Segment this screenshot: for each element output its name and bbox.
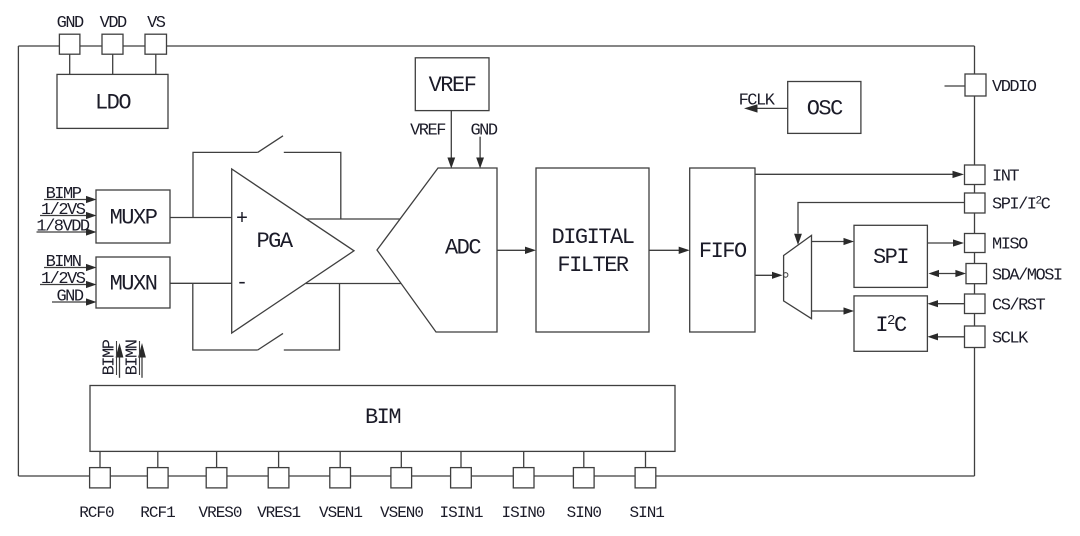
wire BIM stub SIN1: [645, 451, 647, 467]
wire BIM stub ISIN1: [460, 451, 462, 467]
block MUXP: [96, 190, 170, 243]
wire BIM stub SIN0: [583, 451, 585, 467]
pin VRES1: [268, 468, 289, 488]
arrowhead 1/8VDD into MUXP: [86, 228, 97, 235]
svg-text:+: +: [236, 208, 248, 231]
svg-text:GND: GND: [57, 14, 84, 33]
svg-text:VSEN0: VSEN0: [380, 504, 423, 522]
svg-text:VREF: VREF: [410, 122, 445, 141]
svg-text:1/2VS: 1/2VS: [41, 270, 86, 289]
node mux input bubble: [783, 273, 788, 278]
arrowhead select into mux: [794, 234, 802, 245]
pin VRES0: [206, 468, 227, 488]
svg-text:VDDIO: VDDIO: [992, 78, 1037, 97]
wire VDD stub: [112, 54, 114, 74]
wire FIFO to mux: [755, 274, 773, 276]
wire VREF to ADC: [450, 111, 452, 159]
arrowhead 1/2VS into MUXP: [86, 212, 97, 219]
pin VSEN1: [330, 468, 351, 488]
switch blade top: [258, 136, 283, 153]
mux selector: [784, 235, 812, 318]
arrowhead SDA/MOSI left: [928, 270, 939, 277]
svg-text:VREF: VREF: [429, 73, 476, 98]
wire PGA out top: [307, 218, 401, 220]
pin VS top: [145, 34, 167, 54]
arrowhead VREF into ADC: [447, 158, 455, 169]
arrowhead mux to I2C: [844, 307, 855, 314]
wire MUXP to PGA: [170, 217, 232, 219]
pin RCF0: [90, 468, 111, 488]
arrowhead SDA/MOSI right: [955, 270, 966, 277]
arrowhead FIFO to INT: [953, 171, 965, 178]
svg-text:VDD: VDD: [100, 14, 127, 33]
wire VDDIO stub: [945, 85, 966, 87]
svg-text:ISIN1: ISIN1: [439, 504, 482, 522]
svg-text:-: -: [236, 272, 248, 295]
arrowhead BIMP up: [116, 343, 124, 358]
svg-text:SPI/I2C: SPI/I2C: [992, 196, 1051, 215]
wire PGA top feedback right: [284, 152, 341, 219]
block MUXN: [96, 257, 170, 308]
svg-text:GND: GND: [56, 288, 83, 307]
wire BIM stub ISIN0: [523, 451, 525, 467]
arrowhead FCLK: [744, 104, 758, 112]
svg-text:SDA/MOSI: SDA/MOSI: [992, 267, 1062, 286]
svg-text:CS/RST: CS/RST: [992, 297, 1046, 316]
svg-text:SIN1: SIN1: [629, 504, 664, 522]
wire 1/8VDD input: [37, 231, 89, 233]
pin MISO: [965, 234, 986, 253]
op-amp PGA: [232, 169, 354, 333]
block FIFO: [690, 168, 755, 332]
svg-text:BIM: BIM: [365, 405, 400, 430]
arrowhead SPI to MISO: [953, 239, 964, 246]
svg-text:FIFO: FIFO: [699, 239, 747, 264]
wire BIM stub VSEN1: [339, 451, 341, 467]
pin SIN0: [573, 468, 594, 488]
svg-text:RCF1: RCF1: [140, 504, 175, 522]
block OSC: [788, 82, 861, 134]
wire SPI/I2C select: [798, 203, 964, 234]
pin SIN1: [635, 468, 656, 488]
wire BIMN label underline: [139, 341, 141, 375]
svg-text:ISIN0: ISIN0: [501, 504, 544, 522]
svg-text:GND: GND: [470, 122, 497, 141]
pin GND top: [59, 34, 80, 54]
wire GND stub: [69, 54, 71, 74]
wire 1/2VS input N: [40, 284, 88, 286]
pin VSEN0: [391, 468, 412, 488]
block SPI: [854, 225, 927, 287]
switch blade bottom: [258, 333, 283, 350]
arrowhead BIMN up: [138, 343, 146, 358]
arrowhead CS/RST into I2C: [927, 300, 938, 307]
block ADC: [377, 168, 497, 332]
wire BIM stub VSEN0: [400, 451, 402, 467]
wire BIMP label underline: [116, 341, 118, 375]
arrowhead GND into MUXN: [86, 298, 97, 305]
block I2C: [854, 296, 927, 351]
pin ISIN1: [451, 468, 472, 488]
wire BIM stub RCF0: [99, 451, 101, 467]
wire SCLK: [937, 336, 964, 338]
pin SDA/MOSI: [966, 264, 987, 284]
wire SPI to MISO: [927, 242, 953, 244]
pin INT: [965, 165, 986, 185]
wire BIMP input: [44, 199, 88, 201]
arrowhead DF to FIFO: [679, 247, 690, 254]
wire BIM stub VRES0: [216, 451, 218, 467]
wire FCLK from OSC: [756, 107, 788, 109]
arrowhead SCLK into I2C: [927, 333, 938, 340]
svg-text:DIGITAL: DIGITAL: [552, 225, 634, 250]
svg-text:OSC: OSC: [807, 97, 843, 122]
wire mux to I2C: [812, 310, 845, 312]
pin CS/RST: [965, 294, 986, 314]
block VREF: [415, 58, 489, 111]
wire mux to SPI: [812, 241, 845, 243]
block BIM: [90, 386, 675, 452]
pin SPI/I2C: [965, 193, 986, 213]
wire CS/RST: [937, 303, 964, 305]
arrowhead BIMP into MUXP: [86, 196, 97, 203]
wire BIM stub RCF1: [157, 451, 159, 467]
svg-text:PGA: PGA: [256, 229, 293, 254]
wire BIMN input: [44, 267, 88, 269]
wire PGA bottom feedback right: [284, 284, 340, 351]
block DIGITAL FILTER: [536, 168, 649, 332]
svg-text:1/8VDD: 1/8VDD: [36, 218, 90, 237]
arrowhead 1/2VS into MUXN: [86, 281, 97, 288]
wire right border: [974, 46, 976, 476]
block LDO: [57, 74, 168, 128]
wire VS stub: [155, 54, 157, 74]
svg-text:FCLK: FCLK: [739, 92, 776, 111]
svg-text:SCLK: SCLK: [992, 330, 1029, 349]
svg-text:INT: INT: [992, 168, 1019, 187]
wire DIGITAL FILTER to FIFO: [649, 249, 679, 251]
svg-text:VSEN1: VSEN1: [319, 504, 362, 522]
wire SDA/MOSI bidirectional: [938, 273, 956, 275]
svg-text:MUXN: MUXN: [110, 272, 157, 297]
svg-text:SIN0: SIN0: [567, 504, 602, 522]
arrowhead GND into ADC: [476, 158, 484, 169]
wire BIMN sense arrow line: [141, 356, 143, 378]
pin SCLK: [965, 326, 986, 348]
wire PGA bottom feedback: [193, 283, 258, 350]
wire FIFO to INT: [755, 173, 953, 175]
arrowhead ADC to DF: [525, 247, 536, 254]
wire GND input: [52, 301, 88, 303]
wire BIMP sense arrow line: [119, 356, 121, 378]
svg-text:RCF0: RCF0: [79, 504, 114, 522]
svg-text:MUXP: MUXP: [110, 206, 158, 231]
pin VDD top: [102, 34, 123, 54]
wire top border: [18, 45, 974, 47]
svg-text:MISO: MISO: [992, 236, 1028, 255]
svg-text:VS: VS: [147, 14, 166, 33]
svg-text:VRES1: VRES1: [257, 504, 300, 522]
svg-text:VRES0: VRES0: [198, 504, 241, 522]
wire GND to ADC: [479, 137, 481, 159]
wire bottom border: [18, 475, 974, 477]
wire ADC to DIGITAL FILTER: [497, 249, 526, 251]
wire MUXN to PGA: [170, 282, 232, 284]
wire left border: [17, 46, 19, 476]
svg-text:ADC: ADC: [445, 236, 481, 261]
arrowhead FIFO to mux: [772, 272, 783, 279]
wire 1/2VS input P: [40, 215, 88, 217]
pin VDDIO: [965, 74, 986, 96]
pin ISIN0: [513, 468, 534, 488]
wire PGA top feedback: [193, 152, 258, 217]
pin RCF1: [147, 468, 168, 488]
svg-text:LDO: LDO: [95, 91, 131, 116]
svg-text:FILTER: FILTER: [557, 253, 629, 278]
wire PGA out bottom: [306, 283, 401, 285]
arrowhead BIMN into MUXN: [86, 264, 97, 271]
wire BIM stub VRES1: [278, 451, 280, 467]
svg-text:SPI: SPI: [873, 245, 908, 270]
arrowhead mux to SPI: [844, 238, 855, 245]
